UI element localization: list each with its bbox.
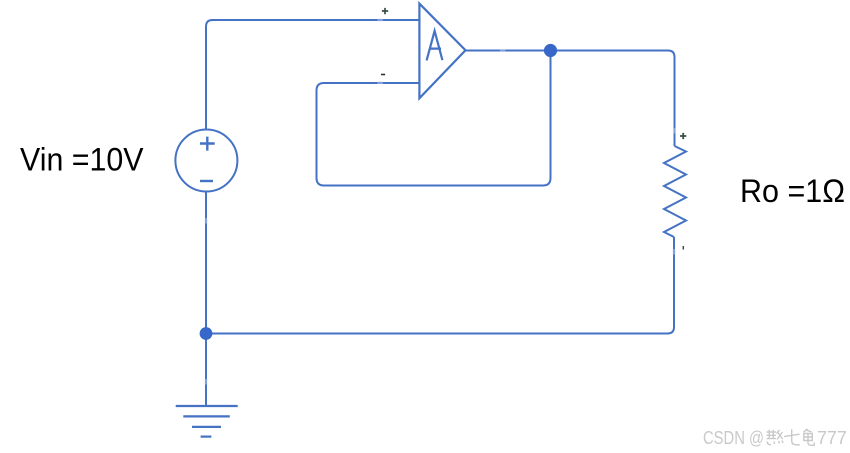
svg-text:Vin =10V: Vin =10V xyxy=(20,142,144,178)
resistor Ro zigzag xyxy=(664,146,686,237)
op-amp + input polarity label xyxy=(382,8,388,14)
wire: Vin top to op-amp + input xyxy=(206,20,419,130)
wire: feedback loop from output node to op-amp - input xyxy=(317,51,551,186)
svg-text:Ro =1Ω: Ro =1Ω xyxy=(740,173,845,209)
op-amp gain label A xyxy=(427,31,443,61)
junction node at bottom-left xyxy=(200,327,213,340)
voltage source V1 (Vin) xyxy=(175,130,237,192)
watermark glyph 龟 xyxy=(804,429,815,446)
svg-text:CSDN @: CSDN @ xyxy=(703,428,764,448)
wire endpoint tick marks xyxy=(206,20,675,385)
watermark glyph 七 xyxy=(784,429,800,445)
junction node at op-amp output xyxy=(544,44,557,57)
resistor - polarity label xyxy=(682,246,684,250)
watermark glyph 憨 xyxy=(767,430,784,445)
wire: left junction down to ground xyxy=(205,334,207,406)
op-amp U1 xyxy=(419,4,465,99)
wire: resistor bottom to bottom rail to left junction xyxy=(206,237,674,334)
wire: op-amp output to top-right corner down to resistor xyxy=(466,51,675,147)
svg-text:777: 777 xyxy=(817,428,847,448)
wire: left junction up to Vin bottom xyxy=(205,192,207,334)
ground xyxy=(176,406,238,437)
op-amp - input polarity label xyxy=(381,74,385,76)
watermark CSDN @憨七龟777 xyxy=(703,428,847,448)
resistor + polarity label xyxy=(680,133,686,139)
